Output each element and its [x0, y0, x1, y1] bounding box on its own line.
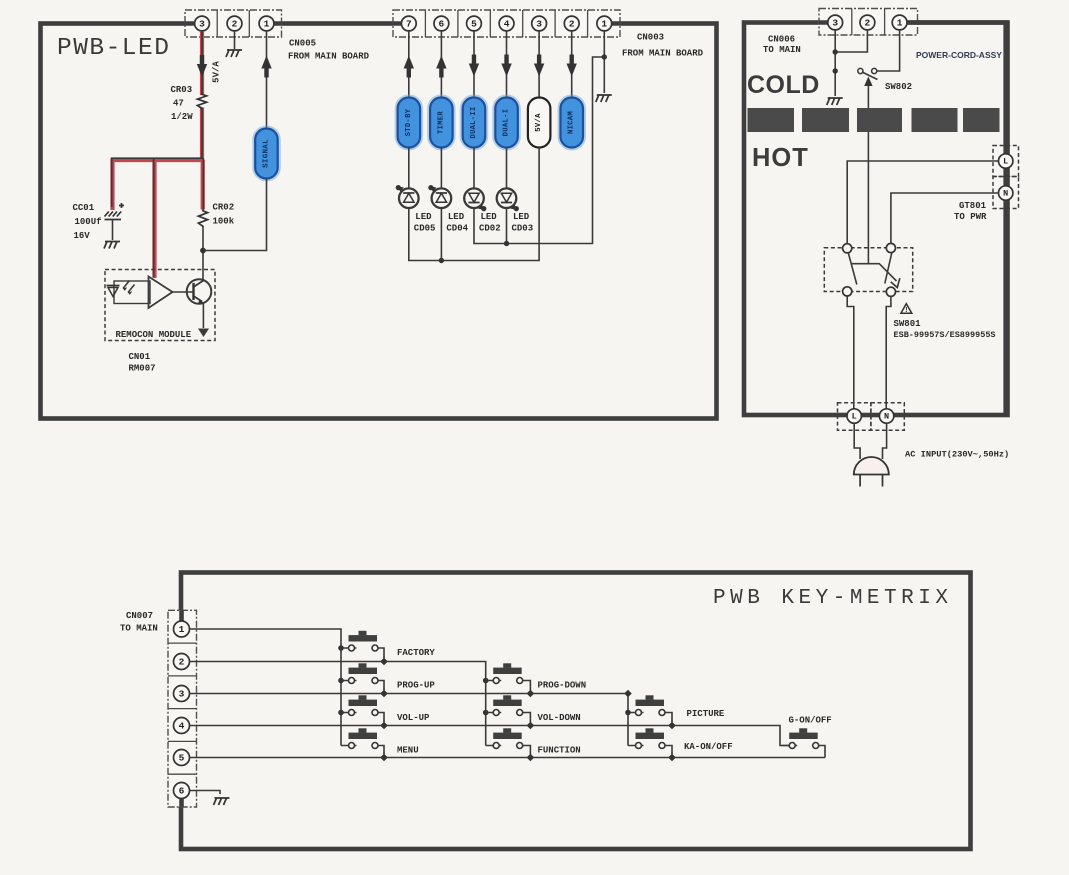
svg-text:VOL-UP: VOL-UP [397, 713, 430, 723]
svg-text:GT801: GT801 [959, 201, 987, 211]
label SW801 ESB-99957S [894, 319, 996, 340]
wire CN003 pin 6 [440, 31, 442, 98]
wire CN003 pin 5 [473, 31, 475, 98]
label GT801 TO PWR [954, 201, 987, 222]
label CR03 47 1/2W [171, 85, 194, 122]
label SW802 [885, 82, 912, 92]
svg-text:LED: LED [448, 212, 465, 222]
svg-text:5: 5 [471, 19, 477, 30]
label G-ON/OFF [789, 716, 832, 726]
svg-text:FUNCTION: FUNCTION [538, 746, 581, 756]
node junction CR02/signal/collector [200, 248, 206, 254]
svg-text:KA-ON/OFF: KA-ON/OFF [684, 742, 733, 752]
svg-text:16V: 16V [74, 231, 91, 241]
svg-text:TIMER: TIMER [437, 111, 445, 134]
AC connector L [838, 403, 871, 431]
label FUNCTION [538, 746, 581, 756]
svg-text:2: 2 [569, 19, 575, 30]
node PROG-DOWN input [483, 678, 489, 684]
svg-text:POWER-CORD-ASSY: POWER-CORD-ASSY [916, 50, 1002, 60]
wire capsule to LED CD03 [506, 148, 508, 189]
svg-text:FACTORY: FACTORY [397, 648, 435, 658]
svg-text:STD-BY: STD-BY [405, 108, 413, 136]
wire capsule to LED CD02 [473, 148, 475, 189]
ground at CN006 pin 3 [827, 98, 843, 105]
svg-text:TO MAIN: TO MAIN [120, 624, 158, 634]
label FACTORY [397, 648, 435, 658]
node VOL-UP output junction [380, 722, 388, 730]
terminal GT801 L [993, 146, 1019, 177]
wire SW801 left output [847, 296, 854, 410]
wire LED CD05/CD04 cathode bus [409, 148, 539, 261]
svg-text:CN01: CN01 [129, 352, 151, 362]
node MENU output junction [380, 754, 388, 762]
label PROG-DOWN [538, 681, 587, 691]
svg-text:N: N [884, 412, 889, 422]
wire N to plug [883, 423, 887, 459]
svg-text:7: 7 [406, 19, 412, 30]
label VOL-UP [397, 713, 430, 723]
switch SW802 [858, 68, 878, 79]
label CC01 100Uf 16V [73, 203, 102, 241]
wire L to SW801 [847, 161, 998, 244]
svg-text:L: L [1003, 157, 1008, 167]
ground at CN003 pin 1 [596, 95, 612, 102]
op-amp U1 (remocon amp) [149, 277, 173, 309]
svg-text:CD02: CD02 [479, 224, 501, 234]
wire CN007 pin5 row [190, 757, 825, 759]
switch SW801 box [824, 248, 912, 292]
svg-text:AC INPUT(230V~,50Hz): AC INPUT(230V~,50Hz) [905, 450, 1009, 460]
label 5V/A vertical [212, 61, 222, 83]
wire CN007 pin2 row [190, 662, 486, 746]
svg-text:5: 5 [179, 753, 185, 764]
svg-text:6: 6 [179, 786, 185, 797]
svg-text:1: 1 [179, 624, 185, 635]
svg-text:CC01: CC01 [73, 203, 95, 213]
switch G-ON/OFF [782, 728, 825, 757]
node FACTORY input [338, 645, 344, 651]
svg-text:CD03: CD03 [512, 224, 534, 234]
label LED CD04 [446, 212, 468, 234]
wire capsule to LED CD04 [440, 148, 442, 189]
arrow on pin 2 wire [567, 55, 577, 77]
svg-text:CN007: CN007 [126, 611, 153, 621]
svg-text:LED: LED [481, 212, 498, 222]
wire L to plug [854, 423, 860, 459]
svg-text:N: N [1003, 189, 1008, 199]
svg-text:2: 2 [232, 19, 238, 30]
resistor CR03 [197, 93, 206, 109]
connector CN007 [168, 610, 197, 807]
svg-text:L: L [852, 412, 857, 422]
photodiode D1 [107, 281, 151, 304]
svg-text:G-ON/OFF: G-ON/OFF [789, 716, 832, 726]
svg-text:6: 6 [439, 19, 445, 30]
wire CN007 pin6 to ground [190, 791, 230, 806]
label CN005 FROM MAIN BOARD [288, 39, 370, 62]
transistor Q1 [173, 279, 212, 328]
svg-text:PROG-DOWN: PROG-DOWN [538, 681, 587, 691]
node VOL-UP input [338, 710, 344, 716]
label LED CD03 [512, 212, 534, 234]
node pin3 feed junction [624, 690, 632, 698]
connector CN003 [393, 10, 620, 37]
node on CD02/CD03 bus [504, 241, 509, 246]
wire SIGNAL from CN005 pin 1 [266, 31, 268, 129]
svg-text:CN003: CN003 [637, 33, 664, 43]
wire CN007 pin3 row [190, 694, 628, 746]
ground at CN005 pin 2 [226, 31, 242, 57]
svg-text:FROM MAIN BOARD: FROM MAIN BOARD [622, 49, 704, 59]
svg-text:REMOCON MODULE: REMOCON MODULE [116, 330, 192, 340]
svg-text:PWB-LED: PWB-LED [57, 35, 170, 62]
node VOL-DOWN input [483, 710, 489, 716]
svg-text:ESB-99957S/ES899955S: ESB-99957S/ES899955S [894, 330, 996, 340]
svg-text:5V/A: 5V/A [535, 113, 543, 132]
label KA-ON/OFF [684, 742, 733, 752]
svg-text:4: 4 [504, 19, 510, 30]
wire capsule to LED CD05 [408, 148, 410, 189]
svg-text:!: ! [904, 307, 908, 315]
indicator capsule 5V/A [528, 98, 551, 148]
svg-text:CN005: CN005 [289, 39, 316, 49]
svg-text:DUAL-II: DUAL-II [470, 106, 478, 138]
node PROG-UP output junction [380, 690, 388, 698]
svg-text:CD05: CD05 [414, 224, 436, 234]
svg-text:RM007: RM007 [129, 364, 156, 374]
svg-text:SW801: SW801 [894, 319, 922, 329]
node FUNCTION output junction [527, 754, 535, 762]
node FACTORY output junction [380, 658, 388, 666]
svg-text:1: 1 [897, 18, 903, 29]
AC plug [854, 457, 889, 487]
svg-text:FROM MAIN BOARD: FROM MAIN BOARD [288, 52, 370, 62]
svg-text:SW802: SW802 [885, 82, 912, 92]
wire CN003 pin 7 [408, 31, 410, 98]
svg-text:1/2W: 1/2W [171, 112, 193, 122]
svg-text:47: 47 [173, 99, 184, 109]
svg-text:TO MAIN: TO MAIN [763, 45, 801, 55]
arrow on 5V/A wire [197, 55, 207, 77]
switch KA-ON/OFF [628, 728, 672, 757]
indicator capsule STD-BY [396, 96, 422, 149]
node PROG-DOWN output junction [527, 690, 535, 698]
arrow on SIGNAL wire [261, 56, 271, 78]
resistor CR02 [198, 210, 207, 228]
node pin3/switch junction [833, 68, 838, 73]
svg-text:CN006: CN006 [768, 35, 795, 45]
label CR02 100k [213, 203, 235, 227]
wire SIGNAL to node [205, 179, 267, 251]
HOT label [752, 144, 809, 172]
wire SW801 right output [886, 296, 891, 409]
svg-text:COLD: COLD [747, 71, 820, 99]
svg-text:LED: LED [415, 212, 432, 222]
wire CN007 pin1 row [190, 629, 341, 746]
wire CN003 pin 2 [571, 31, 573, 98]
svg-text:1: 1 [264, 19, 270, 30]
label PROG-UP [397, 681, 435, 691]
node PICTURE output junction [668, 722, 676, 730]
svg-text:3: 3 [832, 18, 838, 29]
label VOL-DOWN [538, 713, 581, 723]
AC connector N [871, 403, 904, 431]
COLD label [747, 71, 820, 99]
svg-text:3: 3 [179, 689, 185, 700]
wire CR02 to node [202, 227, 204, 279]
label AC INPUT [905, 450, 1009, 460]
label MENU [397, 746, 419, 756]
svg-text:3: 3 [199, 19, 205, 30]
svg-text:CR03: CR03 [171, 85, 193, 95]
switch PROG-UP [341, 663, 384, 693]
svg-text:CD04: CD04 [446, 224, 468, 234]
switch VOL-UP [341, 695, 384, 725]
svg-text:100Uf: 100Uf [75, 217, 102, 227]
label LED CD05 [414, 212, 436, 234]
wire LED CD02/CD03 cathode bus [474, 57, 604, 244]
indicator capsule TIMER [429, 96, 455, 149]
LED CD04 [428, 185, 451, 208]
svg-text:1: 1 [601, 19, 607, 30]
LED CD03 [497, 188, 519, 211]
terminal GT801 N [993, 177, 1019, 209]
PWB-LED board outline [41, 24, 717, 419]
svg-text:3: 3 [536, 19, 542, 30]
arrow on pin 4 wire [501, 55, 511, 77]
svg-text:LED: LED [513, 212, 530, 222]
svg-text:NICAM: NICAM [568, 111, 576, 134]
connector CN005 [185, 10, 282, 37]
wire CN003 pin 3 [538, 31, 540, 98]
switch FUNCTION [486, 728, 531, 757]
svg-text:2: 2 [179, 657, 185, 668]
label LED CD02 [479, 212, 501, 234]
node CN003 pin1 junction [602, 54, 607, 59]
power-cord board outline [744, 23, 1008, 416]
svg-text:MENU: MENU [397, 746, 419, 756]
switch MENU [341, 728, 384, 757]
connector CN006 [819, 9, 918, 36]
switch PROG-DOWN [486, 663, 531, 693]
label CN006 TO MAIN [763, 35, 801, 56]
svg-text:PROG-UP: PROG-UP [397, 681, 435, 691]
arrow on pin 6 wire [436, 56, 446, 78]
svg-text:PICTURE: PICTURE [687, 709, 725, 719]
wire N to SW801 [891, 193, 999, 244]
wire CN003 pin 1 to ground [603, 31, 605, 93]
wire CN007 pin4 row [190, 726, 789, 746]
arrow on pin 7 wire [404, 56, 414, 78]
wire SW802 pole down [864, 77, 872, 264]
warning triangle [901, 304, 912, 315]
arrow on pin 5 wire [469, 55, 479, 77]
label REMOCON MODULE [116, 330, 192, 340]
isolation barrier bars [748, 108, 1000, 132]
ground below transistor [198, 329, 209, 338]
SW801 contacts [843, 243, 896, 296]
SW801 blades and linkage [848, 252, 900, 287]
node on 5V/A bus [439, 258, 444, 263]
label CN007 TO MAIN [120, 611, 158, 634]
indicator capsule DUAL-II [461, 96, 487, 149]
svg-text:100k: 100k [213, 217, 235, 227]
capacitor CC01 [104, 203, 124, 249]
switch FACTORY [341, 631, 384, 662]
title PWB KEY-METRIX [713, 587, 952, 610]
svg-text:PWB KEY-METRIX: PWB KEY-METRIX [713, 587, 952, 610]
svg-text:HOT: HOT [752, 144, 809, 172]
LED CD02 [464, 188, 486, 211]
label CN003 FROM MAIN BOARD [622, 33, 704, 59]
svg-text:2: 2 [865, 18, 871, 29]
LED CD05 [396, 185, 419, 208]
indicator capsule NICAM [559, 96, 585, 149]
wire CN006 pin3 down [835, 30, 899, 96]
indicator capsule DUAL-I [494, 96, 520, 149]
node KA-ON/OFF output junction [668, 754, 676, 762]
wire CN003 pin 4 [506, 31, 508, 98]
title PWB-LED [57, 35, 170, 62]
remocon module box CN01 [105, 270, 215, 341]
svg-text:CR02: CR02 [213, 203, 235, 213]
switch PICTURE [628, 695, 672, 725]
svg-text:4: 4 [179, 721, 185, 732]
label PICTURE [687, 709, 725, 719]
node PICTURE input [625, 710, 631, 716]
node VOL-DOWN output junction [527, 722, 535, 730]
SIGNAL indicator capsule [254, 127, 279, 180]
switch VOL-DOWN [486, 695, 531, 725]
svg-text:TO PWR: TO PWR [954, 212, 987, 222]
node pin3/pin2 junction [833, 49, 838, 54]
svg-text:5V/A: 5V/A [212, 61, 222, 83]
svg-text:SIGNAL: SIGNAL [263, 139, 271, 168]
arrow on pin 3 wire [534, 55, 544, 77]
svg-text:VOL-DOWN: VOL-DOWN [538, 713, 581, 723]
label POWER-CORD-ASSY [916, 50, 1002, 60]
label CN01 RM007 [129, 352, 156, 374]
wire CN006 pin1 to GT801 L [906, 23, 1006, 416]
wire 5V/A red net from CN005 pin 3 [111, 31, 204, 278]
node PROG-UP input [338, 678, 344, 684]
PWB KEY-METRIX board outline [181, 573, 971, 850]
svg-text:DUAL-I: DUAL-I [503, 109, 511, 137]
